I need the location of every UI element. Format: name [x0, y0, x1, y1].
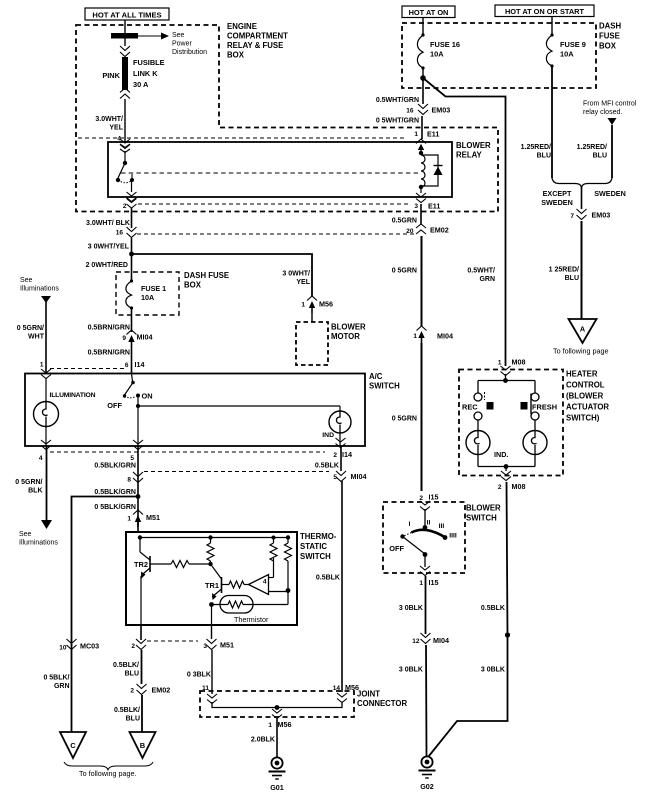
From MFI control relay note	[583, 101, 637, 126]
svg-text:E11: E11	[428, 202, 440, 211]
svg-text:2: 2	[131, 643, 135, 650]
svg-text:OFF: OFF	[107, 401, 122, 410]
svg-text:relay closed.: relay closed.	[583, 109, 622, 116]
svg-text:RELAY: RELAY	[456, 151, 483, 160]
svg-text:To following page.: To following page.	[79, 769, 137, 778]
svg-text:Thermistor: Thermistor	[234, 615, 269, 624]
wire 0.5WHT/GRN from fuse16 junction to heater control	[423, 78, 506, 366]
resistor right branch (vertical)	[287, 538, 289, 544]
svg-text:M56: M56	[319, 300, 333, 309]
wire branch to blower motor (right)	[132, 254, 313, 296]
dash fuse box (left, fuse 1)	[116, 272, 179, 315]
wire from HOT AT ON to fuse 16	[422, 18, 424, 36]
svg-text:10A: 10A	[560, 50, 574, 59]
page connector C	[60, 732, 86, 758]
REC indicator lamp	[466, 431, 490, 455]
junction node 0.5BLK/GRN	[136, 494, 141, 499]
connector chevrons above fusible link	[120, 46, 130, 57]
wire 0.5GRN to 1 MI04	[421, 236, 423, 326]
svg-text:BOX: BOX	[599, 42, 617, 51]
svg-text:I14: I14	[342, 450, 352, 459]
E11 connector dashed line (bottom)	[138, 203, 411, 205]
svg-text:EM03: EM03	[592, 211, 611, 220]
fuse F16 10A	[421, 33, 424, 36]
svg-text:EM03: EM03	[432, 106, 451, 115]
svg-text:3.0WHT/ BLK: 3.0WHT/ BLK	[86, 220, 130, 227]
svg-text:FUSE 16: FUSE 16	[430, 40, 460, 49]
svg-text:B: B	[140, 741, 146, 750]
arrow See Power Distribution	[138, 32, 207, 56]
wire 0.5GRN relay pin3 to 20 EM02	[420, 204, 422, 224]
svg-text:Power: Power	[172, 41, 193, 48]
blower switch box (dashed)	[383, 502, 465, 573]
dash fuse box (top right, dashed)	[402, 23, 596, 88]
power label HOT AT ALL TIMES	[85, 8, 169, 20]
svg-text:ENGINE: ENGINE	[227, 22, 257, 31]
wire 0.5WHT/GRN to 16 EM03	[422, 78, 424, 104]
svg-text:From MFI control: From MFI control	[583, 101, 637, 108]
connector 3 M51 (middle)	[211, 625, 213, 639]
svg-text:PINK: PINK	[102, 71, 120, 80]
svg-text:See: See	[20, 277, 33, 284]
svg-text:BLOWER: BLOWER	[456, 141, 491, 150]
svg-text:Illuminations: Illuminations	[19, 540, 58, 547]
svg-text:ON: ON	[142, 392, 153, 401]
fuse F9 10A	[550, 33, 553, 36]
svg-text:30 A: 30 A	[133, 80, 149, 89]
wire 0.5BLK from A/C pin2 down	[340, 446, 342, 471]
engine compartment relay and fuse box (dashed outline)	[76, 25, 498, 212]
svg-text:0.5BLK: 0.5BLK	[316, 575, 340, 582]
svg-text:STATIC: STATIC	[300, 542, 327, 551]
blower switch rotary contact	[389, 509, 457, 567]
thermistor	[212, 596, 289, 625]
wire from HOT AT ALL TIMES down to bus bar	[124, 20, 126, 46]
wire 0.5BLK/BLU to 2 EM02	[141, 650, 143, 684]
svg-text:RELAY & FUSE: RELAY & FUSE	[227, 41, 283, 50]
A/C ON/OFF switch	[107, 374, 340, 446]
svg-text:9: 9	[122, 335, 126, 342]
resistor to op-amp (vertical, from top rail)	[273, 538, 275, 544]
svg-text:2.0BLK: 2.0BLK	[251, 737, 275, 744]
thermostatic switch box	[126, 532, 297, 625]
wire 0.5WHT/GRN to relay pin 1	[421, 116, 423, 139]
svg-text:To following page: To following page	[553, 347, 609, 356]
wire between labels down to 7 EM03	[581, 186, 583, 209]
svg-text:0.5WHT/: 0.5WHT/	[467, 268, 495, 275]
connector 1 M56 below joint	[272, 709, 282, 719]
svg-text:1: 1	[268, 722, 272, 729]
svg-text:DASH: DASH	[599, 22, 621, 31]
MI04 connector dashed line	[144, 471, 329, 473]
relay armature dashed link	[121, 172, 418, 174]
page connector A	[569, 319, 597, 343]
svg-text:1: 1	[40, 362, 44, 369]
wire from HOT AT ON OR START to fuse 9	[551, 17, 553, 36]
svg-text:SWEDEN: SWEDEN	[541, 198, 573, 207]
IND lamp in A/C switch	[322, 406, 351, 446]
svg-text:HOT AT ON: HOT AT ON	[409, 8, 449, 17]
svg-text:FRESH: FRESH	[532, 403, 557, 412]
svg-text:FUSE 1: FUSE 1	[141, 284, 166, 293]
wire 0.5BRN/GRN fuse1 to 9 MI04	[131, 308, 133, 332]
svg-text:3 0BLK: 3 0BLK	[399, 605, 423, 612]
svg-text:G02: G02	[420, 782, 434, 791]
svg-text:M51: M51	[146, 513, 160, 522]
fusible link K 30A (thick PINK wire)	[102, 57, 164, 90]
svg-text:III: III	[439, 523, 445, 530]
svg-text:SWITCH: SWITCH	[300, 552, 331, 561]
svg-text:IND.: IND.	[494, 450, 508, 459]
TR2 base resistor	[150, 563, 171, 565]
svg-text:3 0WHT/YEL: 3 0WHT/YEL	[88, 244, 130, 251]
svg-text:JOINT: JOINT	[357, 690, 380, 699]
illumination lamp	[34, 378, 96, 446]
svg-text:BLU: BLU	[537, 153, 551, 160]
EM02/EM03 connector dashed line across	[137, 233, 414, 235]
svg-text:0.5BLK/GRN: 0.5BLK/GRN	[94, 463, 136, 470]
svg-text:1 25RED/: 1 25RED/	[549, 267, 579, 274]
svg-text:1.25RED/: 1.25RED/	[577, 144, 607, 151]
wire 0.5BLK/GRN pin5 down	[137, 446, 139, 532]
svg-text:WHT: WHT	[28, 334, 45, 341]
svg-text:1: 1	[127, 516, 131, 523]
fuse F1 10A	[130, 279, 133, 282]
svg-text:0.5BRN/GRN: 0.5BRN/GRN	[88, 325, 130, 332]
ground G02	[421, 756, 432, 767]
svg-text:10A: 10A	[141, 293, 154, 302]
REC switch	[462, 381, 494, 431]
svg-text:3 0BLK: 3 0BLK	[481, 667, 505, 674]
svg-text:1: 1	[413, 333, 417, 340]
svg-text:OFF: OFF	[389, 544, 404, 553]
svg-text:REC: REC	[462, 403, 478, 412]
svg-text:A/C: A/C	[369, 372, 383, 381]
svg-text:IIII: IIII	[449, 533, 457, 540]
wire 1.25RED/BLU to page connector A	[581, 221, 583, 319]
I14 connector dashed line (top of A/C switch)	[50, 368, 124, 370]
power label HOT AT ON	[402, 6, 455, 18]
svg-text:20: 20	[406, 228, 414, 235]
svg-text:2: 2	[130, 688, 134, 695]
svg-text:0 5GRN/: 0 5GRN/	[17, 325, 44, 332]
svg-text:0.5BLK: 0.5BLK	[481, 605, 505, 612]
svg-text:5: 5	[130, 455, 134, 462]
svg-text:0 3BLK: 0 3BLK	[187, 672, 211, 679]
branch wire to MC03 (left)	[72, 497, 139, 733]
svg-text:BLK: BLK	[28, 488, 42, 495]
svg-text:7: 7	[570, 213, 574, 220]
heater control bottom node	[477, 455, 479, 467]
A/C switch box	[25, 374, 365, 447]
node thermistor left / TR1 emitter	[209, 602, 214, 607]
svg-text:MC03: MC03	[80, 642, 99, 651]
svg-text:0.5BLK/: 0.5BLK/	[114, 707, 140, 714]
connector chevrons below fusible link	[120, 88, 130, 99]
svg-text:IND: IND	[322, 432, 334, 439]
svg-text:1: 1	[498, 360, 502, 367]
svg-text:SWITCH: SWITCH	[369, 382, 400, 391]
svg-text:LINK K: LINK K	[133, 69, 158, 78]
svg-text:10: 10	[59, 645, 67, 652]
svg-text:2: 2	[333, 452, 337, 459]
svg-text:1: 1	[301, 302, 305, 309]
diode in relay	[434, 167, 443, 176]
TR1 base resistor	[222, 584, 230, 586]
chevron at pin1 entering box	[41, 369, 51, 379]
svg-text:BLU: BLU	[125, 671, 139, 678]
svg-text:SWITCH: SWITCH	[466, 514, 497, 523]
svg-text:SWITCH): SWITCH)	[566, 414, 600, 423]
svg-text:BLOWER: BLOWER	[331, 323, 366, 332]
svg-text:0 5GRN: 0 5GRN	[392, 416, 417, 423]
E11 connector dashed line (top, pins 4 and 1)	[78, 137, 407, 139]
op-amp U1	[249, 558, 289, 595]
svg-text:BLU: BLU	[565, 275, 579, 282]
svg-text:0.5GRN: 0.5GRN	[392, 218, 417, 225]
wire 2.0BLK to ground G01	[276, 719, 278, 757]
chevron into blower switch	[420, 501, 430, 511]
svg-text:2: 2	[123, 203, 127, 210]
svg-text:MI04: MI04	[351, 472, 367, 481]
wire 3.0BLK to 12 MI04	[425, 576, 427, 634]
svg-text:M56: M56	[278, 720, 292, 729]
svg-text:FUSE 9: FUSE 9	[560, 40, 586, 49]
svg-text:TR1: TR1	[205, 581, 219, 590]
svg-text:1.25RED/: 1.25RED/	[521, 144, 551, 151]
svg-text:THERMO-: THERMO-	[300, 532, 337, 541]
svg-text:4: 4	[263, 579, 267, 586]
wire 2.0WHT/RED down to fuse 1	[131, 254, 133, 281]
svg-text:GRN: GRN	[54, 683, 70, 690]
relay coil and diode (right)	[416, 139, 443, 203]
svg-text:0 5BLK/GRN: 0 5BLK/GRN	[94, 504, 136, 511]
svg-text:C: C	[70, 741, 76, 750]
svg-text:M56: M56	[345, 683, 359, 692]
svg-text:Distribution: Distribution	[172, 49, 207, 56]
wire fuse16 to junction	[422, 68, 424, 78]
svg-text:HOT AT ALL TIMES: HOT AT ALL TIMES	[92, 11, 161, 20]
svg-text:16: 16	[116, 230, 124, 237]
wire 3.0BLK heater to ground G02	[429, 635, 508, 757]
svg-text:I: I	[409, 521, 411, 528]
svg-text:3 0WHT/: 3 0WHT/	[282, 271, 310, 278]
svg-text:MI04: MI04	[137, 333, 153, 342]
svg-text:G01: G01	[270, 783, 284, 792]
svg-text:Illuminations: Illuminations	[20, 286, 59, 293]
svg-text:COMPARTMENT: COMPARTMENT	[227, 32, 288, 41]
svg-text:YEL: YEL	[296, 279, 310, 286]
svg-text:HEATER: HEATER	[566, 370, 598, 379]
svg-text:SWEDEN: SWEDEN	[594, 189, 626, 198]
wire 0.5BRN/GRN to A/C switch pin 6	[131, 347, 133, 374]
svg-text:0.5BRN/GRN: 0.5BRN/GRN	[88, 350, 130, 357]
wire 0.5BLK/BLU to page connector B	[141, 695, 143, 732]
wire 1.25RED/BLU (except sweden)	[551, 66, 553, 178]
svg-text:M08: M08	[512, 358, 526, 367]
thermo resistor R1 (vertical)	[210, 538, 212, 544]
svg-text:EXCEPT: EXCEPT	[543, 189, 572, 198]
merge bracket of the two 1.25RED/BLU wires	[552, 178, 612, 189]
transistor TR2	[134, 538, 150, 579]
chevron pin 11 into joint connector	[207, 694, 217, 704]
M51 connector dashed line	[147, 640, 198, 642]
chevron pin 14 into joint connector	[337, 693, 347, 703]
svg-text:GRN: GRN	[479, 276, 495, 283]
svg-text:TR2: TR2	[134, 560, 148, 569]
wire 3.0WHT/BLK relay pin2 to 16 EM03	[131, 208, 133, 228]
svg-text:3.0WHT/: 3.0WHT/	[95, 116, 123, 123]
svg-text:A: A	[580, 325, 586, 334]
svg-text:(BLOWER: (BLOWER	[566, 392, 604, 401]
chevron out of blower switch	[420, 566, 430, 576]
wire 0.5GRN/BLK to See Illuminations (bottom)	[15, 446, 58, 547]
svg-text:3: 3	[414, 203, 418, 210]
svg-text:0 5GRN: 0 5GRN	[392, 268, 417, 275]
svg-text:M08: M08	[512, 482, 526, 491]
svg-text:HOT AT ON OR START: HOT AT ON OR START	[505, 7, 585, 16]
relay contact (left)	[116, 144, 137, 208]
wire to 3 M51 out of thermo box	[211, 605, 213, 626]
svg-text:YEL: YEL	[109, 125, 123, 132]
svg-text:1: 1	[419, 580, 423, 587]
svg-text:FUSE: FUSE	[599, 32, 620, 41]
svg-text:I14: I14	[135, 360, 145, 369]
svg-text:MI04: MI04	[433, 636, 449, 645]
svg-text:2: 2	[419, 495, 423, 502]
svg-text:0.5BLK: 0.5BLK	[315, 463, 339, 470]
svg-text:BLU: BLU	[593, 153, 607, 160]
TR2 emitter wire down (becomes 2 M51)	[140, 576, 142, 625]
svg-text:16: 16	[406, 108, 414, 115]
svg-text:2: 2	[498, 484, 502, 491]
junction node below fuse 16	[420, 75, 426, 81]
heater control top node	[505, 374, 507, 380]
svg-text:4: 4	[39, 455, 43, 462]
svg-text:CONTROL: CONTROL	[566, 381, 605, 390]
svg-text:3: 3	[203, 643, 207, 650]
svg-text:0 5WHT/GRN: 0 5WHT/GRN	[376, 118, 419, 125]
svg-text:MI04: MI04	[437, 332, 453, 341]
brace under C and B	[64, 762, 153, 770]
chevrons at A/C switch bottom edge	[41, 440, 51, 450]
svg-text:II: II	[427, 520, 431, 527]
joint connector internal bus	[212, 702, 342, 708]
svg-text:0.5BLK/GRN: 0.5BLK/GRN	[94, 489, 136, 496]
wire 1.25RED/BLU (sweden)	[611, 125, 613, 178]
thermo top rail	[140, 537, 288, 539]
svg-text:M51: M51	[220, 641, 234, 650]
wire 0.5GRN to blower switch 2 I15	[421, 343, 423, 491]
joint connector box (dashed)	[200, 691, 354, 717]
junction node 0.5BLK/3.0BLK	[505, 632, 510, 637]
See Illuminations feed (top left)	[20, 277, 59, 374]
connector 2 M51 (left)	[140, 625, 142, 640]
wire into blower motor	[311, 313, 313, 322]
wire 0.5BLK down to joint connector 14	[341, 481, 343, 692]
svg-text:See: See	[172, 32, 185, 39]
svg-text:ACTUATOR: ACTUATOR	[566, 403, 609, 412]
svg-text:FUSIBLE: FUSIBLE	[133, 58, 165, 67]
svg-text:2 0WHT/RED: 2 0WHT/RED	[86, 262, 128, 269]
svg-text:BOX: BOX	[227, 51, 245, 60]
bus bar node	[111, 33, 138, 39]
svg-text:ILLUMINATION: ILLUMINATION	[50, 392, 96, 399]
svg-text:12: 12	[412, 638, 420, 645]
svg-text:E11: E11	[427, 130, 439, 139]
svg-text:BLU: BLU	[126, 716, 140, 723]
svg-text:EM02: EM02	[152, 686, 171, 695]
blower motor box (dashed)	[296, 322, 328, 365]
junction node 3.0WHT/YEL	[129, 252, 134, 257]
connector 2 M08	[501, 471, 511, 481]
page connector B	[130, 732, 156, 758]
FRESH switch	[521, 381, 558, 431]
svg-text:0.5WHT/GRN: 0.5WHT/GRN	[376, 97, 419, 104]
blower relay box	[108, 142, 452, 197]
svg-text:MOTOR: MOTOR	[331, 332, 360, 341]
svg-text:BLOWER: BLOWER	[466, 504, 501, 513]
wire 3.0WHT/YEL to junction	[131, 238, 133, 254]
FRESH indicator lamp	[523, 431, 547, 455]
svg-text:0.5BLK/: 0.5BLK/	[113, 662, 139, 669]
svg-text:I15: I15	[429, 493, 439, 502]
svg-text:I15: I15	[429, 578, 439, 587]
wire 3.0BLK to ground G02	[425, 645, 428, 756]
heater control box (dashed)	[459, 370, 563, 476]
ground G01	[271, 757, 282, 768]
wire 0.5BLK heater to junction	[507, 482, 508, 635]
svg-text:8: 8	[127, 477, 131, 484]
svg-text:10A: 10A	[430, 50, 444, 59]
svg-text:BOX: BOX	[184, 281, 202, 290]
svg-text:14: 14	[333, 685, 341, 692]
svg-text:See: See	[19, 531, 32, 538]
svg-text:DASH FUSE: DASH FUSE	[184, 271, 229, 280]
svg-text:CONNECTOR: CONNECTOR	[357, 699, 407, 708]
wire 3.0WHT/YEL from fusible link to relay pin 4	[124, 99, 126, 142]
svg-text:0 5GRN/: 0 5GRN/	[15, 479, 42, 486]
svg-text:1: 1	[414, 131, 418, 138]
svg-text:EM02: EM02	[430, 226, 449, 235]
I14 connector dashed line (bottom of A/C switch)	[50, 451, 325, 453]
svg-text:6: 6	[125, 362, 129, 369]
svg-text:3 0BLK: 3 0BLK	[399, 667, 423, 674]
svg-text:0 5BLK/: 0 5BLK/	[43, 675, 69, 682]
transistor TR1	[205, 564, 221, 600]
wire 0.3BLK to joint connector pin 11	[211, 650, 213, 694]
power label HOT AT ON OR START	[495, 5, 594, 17]
